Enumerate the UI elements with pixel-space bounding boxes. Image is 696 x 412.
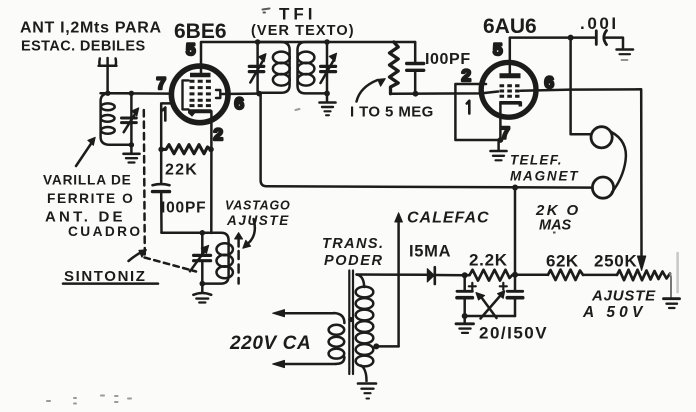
wire 6AU6 pin7 drop	[499, 103, 502, 140]
telephone magnet terminal (upper circle)	[591, 127, 612, 148]
svg-text:I00PF: I00PF	[161, 200, 206, 217]
wire 22K left drop to 100PF	[160, 149, 163, 183]
dashed tuning gang link (vertical)	[144, 110, 145, 257]
capacitor TF1 secondary trimmer	[321, 53, 337, 83]
6AU6 internal plate bar	[500, 73, 521, 78]
node coil-cap junction	[129, 91, 134, 96]
node 22K left junction	[158, 147, 164, 153]
node plate/.001 junction	[568, 35, 574, 41]
svg-text:TRANS.: TRANS.	[322, 236, 384, 252]
wire 6BE6 pin2 cathode drop	[210, 111, 213, 233]
6BE6 internal grid dashes	[190, 81, 212, 105]
ground filter	[456, 316, 474, 333]
capacitor 100PF (cathode)	[153, 184, 170, 192]
6BE6 internal right bracket	[216, 90, 220, 98]
wire TF1 primary trimmer branch	[256, 42, 259, 94]
svg-text:FERRITE O: FERRITE O	[47, 191, 134, 206]
svg-text:MAS: MAS	[539, 218, 572, 234]
node 22K right junction	[208, 147, 214, 153]
wire top rail B+	[202, 41, 415, 44]
svg-text:.00I: .00I	[580, 14, 619, 33]
svg-text:7: 7	[157, 74, 166, 93]
tube 6BE6 V1 envelope	[171, 66, 228, 123]
wire diode to filter	[435, 274, 465, 277]
node heater tap junction	[373, 343, 379, 349]
resistor 2.2K	[465, 270, 515, 281]
node TF1 secondary bottom junction	[324, 91, 330, 97]
wire 6AU6 plate rail to .001 junction	[510, 36, 570, 39]
capacitor 100PF detector	[407, 42, 424, 94]
svg-text:TELEF.: TELEF.	[510, 153, 563, 168]
plus sign output cap	[500, 283, 507, 290]
faint smudge right edge	[676, 253, 679, 292]
wire TF1 secondary trimmer branch	[326, 42, 329, 93]
dashed vastago adjust shaft with arrow	[235, 233, 243, 284]
arrow from SINTONIZ label to gang link	[129, 250, 147, 261]
capacitor oscillator tuning	[190, 233, 211, 284]
stray scan dots bottom left	[47, 396, 131, 404]
wire 220V line upper with arrow	[273, 310, 334, 317]
svg-text:CUADRO: CUADRO	[68, 224, 142, 239]
transformer T1 primary winding	[329, 313, 345, 364]
svg-text:ANT I,2Mts PARA: ANT I,2Mts PARA	[20, 20, 162, 37]
node TF1 primary bottom junction	[256, 91, 262, 97]
wire 6AU6 grid2 box	[455, 84, 500, 140]
svg-text:PODER: PODER	[324, 253, 384, 269]
node 6AU6 cathode junction	[498, 137, 504, 143]
node TF1 primary top junction	[255, 39, 261, 45]
node detector output junction	[413, 91, 419, 97]
6BE6 cathode bar	[188, 111, 211, 116]
node oscillator cap top junction	[200, 230, 206, 236]
wire .001 junction drop to phone jack	[571, 38, 591, 135]
wire filter bottom rail	[465, 315, 515, 318]
svg-text:2: 2	[214, 125, 223, 144]
ground .001	[617, 50, 634, 61]
diode rectifier 15MA	[427, 267, 435, 284]
stray mark above TF1	[263, 9, 270, 13]
svg-text:220V CA: 220V CA	[229, 333, 311, 354]
svg-text:ESTAC. DEBILES: ESTAC. DEBILES	[21, 39, 146, 55]
wire calefac riser with arrow	[395, 213, 403, 347]
wire antenna lead	[106, 66, 109, 93]
ground transformer secondary	[358, 384, 376, 399]
svg-text:I TO 5 MEG: I TO 5 MEG	[350, 104, 434, 121]
wire rectifier line	[357, 273, 428, 276]
wire heater tap to calefac riser	[376, 345, 398, 348]
arrow screen wire onto 250K pot	[637, 256, 645, 271]
wire 220V line lower with arrow	[273, 360, 336, 367]
arrow 20/150V to input cap	[476, 293, 497, 319]
wire 6BE6 pin5 riser	[200, 42, 203, 75]
transformer T1 secondary winding	[356, 275, 374, 382]
coil L2 oscillator winding	[202, 233, 233, 284]
wire B+ riser from 2.2K to phones	[514, 188, 517, 275]
node filter input junction	[462, 272, 468, 278]
underline SINTONIZ	[63, 282, 158, 285]
node coil bottom junction	[129, 142, 134, 147]
wire 250K to ground (faint)	[670, 274, 671, 298]
svg-text:22K: 22K	[165, 162, 198, 179]
arrow from AJUSTE label to shaft	[243, 219, 255, 248]
svg-text:6AU6: 6AU6	[483, 15, 537, 38]
capacitor electrolytic C output	[507, 275, 522, 316]
wire detector to 6AU6 grid	[391, 92, 499, 94]
stray mark below TF1	[296, 109, 300, 110]
svg-text:ANT. DE: ANT. DE	[45, 209, 126, 226]
capacitor electrolytic C input	[457, 275, 472, 316]
tube 6AU6 V2 envelope	[481, 62, 536, 117]
wire 6AU6 screen to voltage divider	[521, 89, 642, 256]
svg-text:2K O: 2K O	[535, 202, 581, 219]
svg-text:2.2K: 2.2K	[469, 251, 508, 270]
ground antenna circuit	[124, 145, 140, 163]
svg-text:62K: 62K	[546, 252, 579, 271]
wire 62K to 250K	[583, 274, 617, 277]
arrow 20/150V to output cap	[481, 291, 505, 319]
wire plate net drop to phones line	[261, 94, 267, 187]
svg-text:250K: 250K	[594, 252, 637, 271]
wire 100PF bottom drop	[160, 192, 163, 233]
resistor 62K	[548, 270, 583, 280]
wire B+ phones line	[267, 186, 593, 187]
pin 1 label 6BE6	[163, 108, 166, 121]
dashed tuning gang link (diagonal to oscillator cap)	[145, 258, 197, 272]
pin 1 label 6AU6	[467, 101, 470, 114]
svg-text:(VER TEXTO): (VER TEXTO)	[251, 23, 355, 39]
svg-text:VASTAGO: VASTAGO	[225, 199, 291, 213]
stray dot below MAS	[553, 232, 556, 234]
node filter ground junction	[462, 313, 468, 319]
6AU6 internal grid dashes	[500, 86, 520, 96]
wire grid line to 6BE6 pin 7	[101, 92, 169, 95]
svg-text:6: 6	[235, 94, 244, 113]
svg-text:TFI: TFI	[279, 5, 317, 24]
svg-text:MAGNET: MAGNET	[510, 169, 579, 184]
coil L1 ferrite antenna winding	[101, 93, 132, 145]
telephone magnet terminal (lower circle)	[592, 177, 613, 198]
transformer TF1 primary winding	[258, 42, 290, 93]
capacitor antenna trimmer	[122, 108, 139, 132]
arrow from VARILLA label to ferrite coil	[76, 137, 95, 166]
wire oscillator top link	[162, 232, 222, 235]
ground 6AU6 cathode	[491, 140, 507, 160]
plus sign input cap	[469, 283, 476, 290]
wire 6AU6 pin5 riser to plate rail	[509, 38, 512, 76]
node antenna junction	[105, 91, 110, 96]
capacitor .001	[571, 31, 623, 48]
svg-text:AJUSTE: AJUSTE	[591, 288, 656, 305]
svg-text:AJUSTE: AJUSTE	[226, 213, 290, 228]
svg-text:CALEFAC: CALEFAC	[407, 210, 490, 227]
telephone magnet cord arc	[611, 132, 626, 193]
wire trimmer branch	[130, 93, 133, 145]
antenna symbol	[99, 58, 117, 66]
node 2.2K right junction	[512, 272, 518, 278]
node TF1 secondary top junction	[324, 39, 330, 45]
svg-text:2: 2	[462, 66, 471, 85]
svg-text:A 50V: A 50V	[582, 304, 647, 321]
wire 6BE6 pin1 stub	[161, 103, 170, 149]
capacitor TF1 primary trimmer	[249, 54, 266, 83]
wire 6BE6 plate to TF1	[221, 92, 260, 95]
resistor 22K	[161, 145, 211, 154]
6BE6 internal left bracket	[183, 80, 189, 109]
transformer T1 core	[348, 271, 353, 375]
svg-text:20/I50V: 20/I50V	[479, 324, 548, 343]
svg-text:I00PF: I00PF	[425, 51, 471, 68]
arrow from 1 TO 5 MEG label to resistor	[357, 79, 386, 102]
resistor 250K potentiometer	[617, 270, 670, 280]
6BE6 internal shield bar	[190, 73, 211, 77]
node B+ phones junction	[512, 185, 518, 191]
svg-text:I5MA: I5MA	[409, 243, 451, 261]
ground TF1 secondary	[320, 93, 336, 115]
6AU6 cathode bar	[499, 103, 520, 107]
node oscillator bottom junction	[200, 281, 206, 287]
ground oscillator	[193, 284, 211, 303]
svg-text:6BE6: 6BE6	[174, 20, 227, 43]
svg-text:SINTONIZ: SINTONIZ	[64, 268, 147, 285]
svg-text:5: 5	[493, 40, 502, 59]
resistor 1 TO 5 MEG grid leak	[390, 42, 399, 94]
ground 250K end	[664, 299, 680, 308]
wire 2.2K to 62K	[515, 274, 548, 277]
svg-text:VARILLA DE: VARILLA DE	[43, 173, 132, 188]
transformer TF1 secondary winding	[298, 42, 328, 93]
